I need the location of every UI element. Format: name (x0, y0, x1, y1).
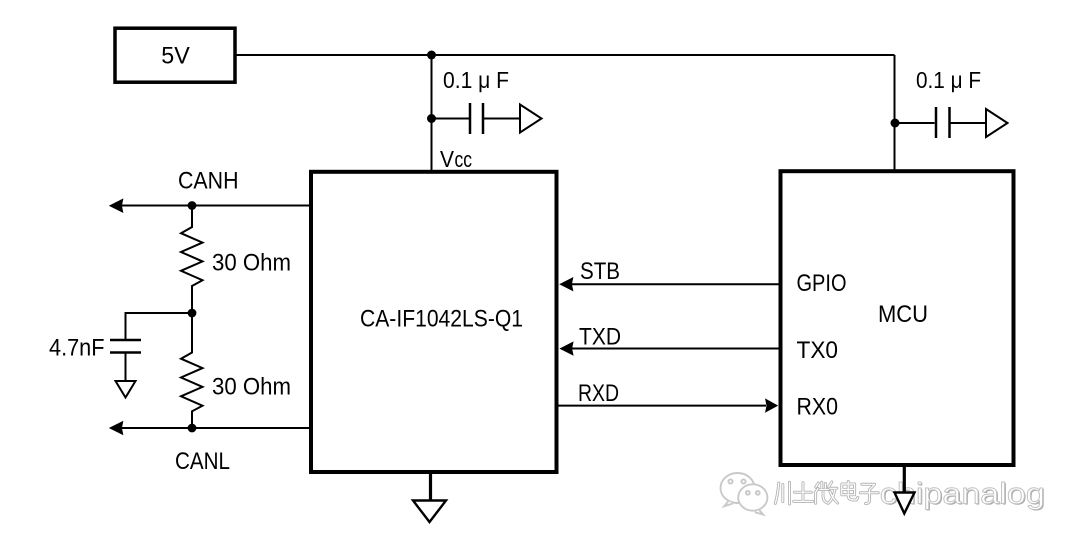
node junction cap C1 tap (427, 114, 436, 123)
watermark text CJK strokes (775, 481, 878, 504)
arrow CANH left (109, 198, 124, 213)
capacitor C1 plate left (469, 103, 472, 134)
ground stem U1 (429, 472, 432, 500)
svg-text:GPIO: GPIO (797, 270, 847, 297)
arrow TXD left (559, 341, 573, 355)
resistor R2 30 Ohm (181, 313, 203, 428)
svg-text:30 Ohm: 30 Ohm (212, 374, 291, 401)
resistor R1 30 Ohm (181, 206, 203, 313)
arrow CANL left (109, 421, 124, 436)
ground arrow right (C1) (520, 105, 542, 133)
arrow STB left (559, 277, 573, 291)
capacitor C1 0.1uF lead (432, 118, 470, 120)
svg-text:4.7nF: 4.7nF (49, 335, 105, 362)
svg-text:MCU: MCU (878, 301, 928, 328)
capacitor C3 plate right (948, 107, 951, 138)
transceiver U1 CA-IF1042LS-Q1 box (311, 172, 557, 472)
node CANL/R2 (188, 424, 197, 433)
svg-text:RX0: RX0 (797, 393, 839, 420)
wire STB (570, 283, 779, 285)
svg-text:0.1 μ F: 0.1 μ F (443, 67, 509, 93)
arrow RXD right (765, 398, 778, 412)
ground triangle U1 (413, 501, 446, 523)
svg-text:cc: cc (455, 147, 473, 172)
svg-text:TX0: TX0 (797, 337, 839, 364)
svg-text:CA-IF1042LS-Q1: CA-IF1042LS-Q1 (360, 305, 523, 332)
node CANH/R1 (188, 201, 197, 210)
capacitor C3 0.1uF lead (895, 122, 935, 124)
node junction rail/Vcc (427, 51, 436, 60)
5V supply box (115, 28, 235, 82)
ground triangle MCU (895, 493, 915, 514)
ground triangle (C2) (116, 381, 136, 398)
wire RXD (557, 405, 766, 407)
wire 5V rail top (235, 54, 895, 56)
svg-text:V: V (440, 146, 455, 172)
wire CANL (122, 427, 309, 429)
capacitor C1 plate right (482, 103, 485, 134)
wire TXD (570, 348, 779, 350)
svg-text:CANH: CANH (178, 167, 239, 194)
svg-text:0.1 μ F: 0.1 μ F (916, 67, 981, 93)
wire CANH (122, 205, 309, 207)
capacitor C3 plate left (935, 107, 938, 138)
ground stem MCU (903, 463, 906, 492)
capacitor C2 4.7nF plate bottom (110, 351, 141, 354)
svg-text:STB: STB (580, 258, 620, 285)
capacitor C1 lead to ground (484, 118, 519, 120)
node junction cap C3 tap (891, 119, 900, 128)
wire split cap branch (126, 313, 193, 339)
svg-text:5V: 5V (161, 43, 190, 70)
capacitor C2 lead to ground (125, 354, 127, 381)
svg-text:CANL: CANL (175, 448, 230, 475)
node R1/R2 midpoint (188, 309, 197, 318)
MCU box (781, 171, 1014, 465)
watermark wechat logo (721, 473, 768, 515)
capacitor C3 lead to ground (951, 122, 986, 124)
ground arrow right (C3) (986, 109, 1008, 137)
wire Vcc drop left (431, 55, 433, 171)
capacitor C2 4.7nF plate top (110, 339, 141, 342)
wire Vcc drop right (894, 55, 896, 171)
svg-text:TXD: TXD (579, 324, 621, 351)
svg-text:RXD: RXD (578, 380, 619, 407)
svg-text:30 Ohm: 30 Ohm (212, 250, 291, 277)
